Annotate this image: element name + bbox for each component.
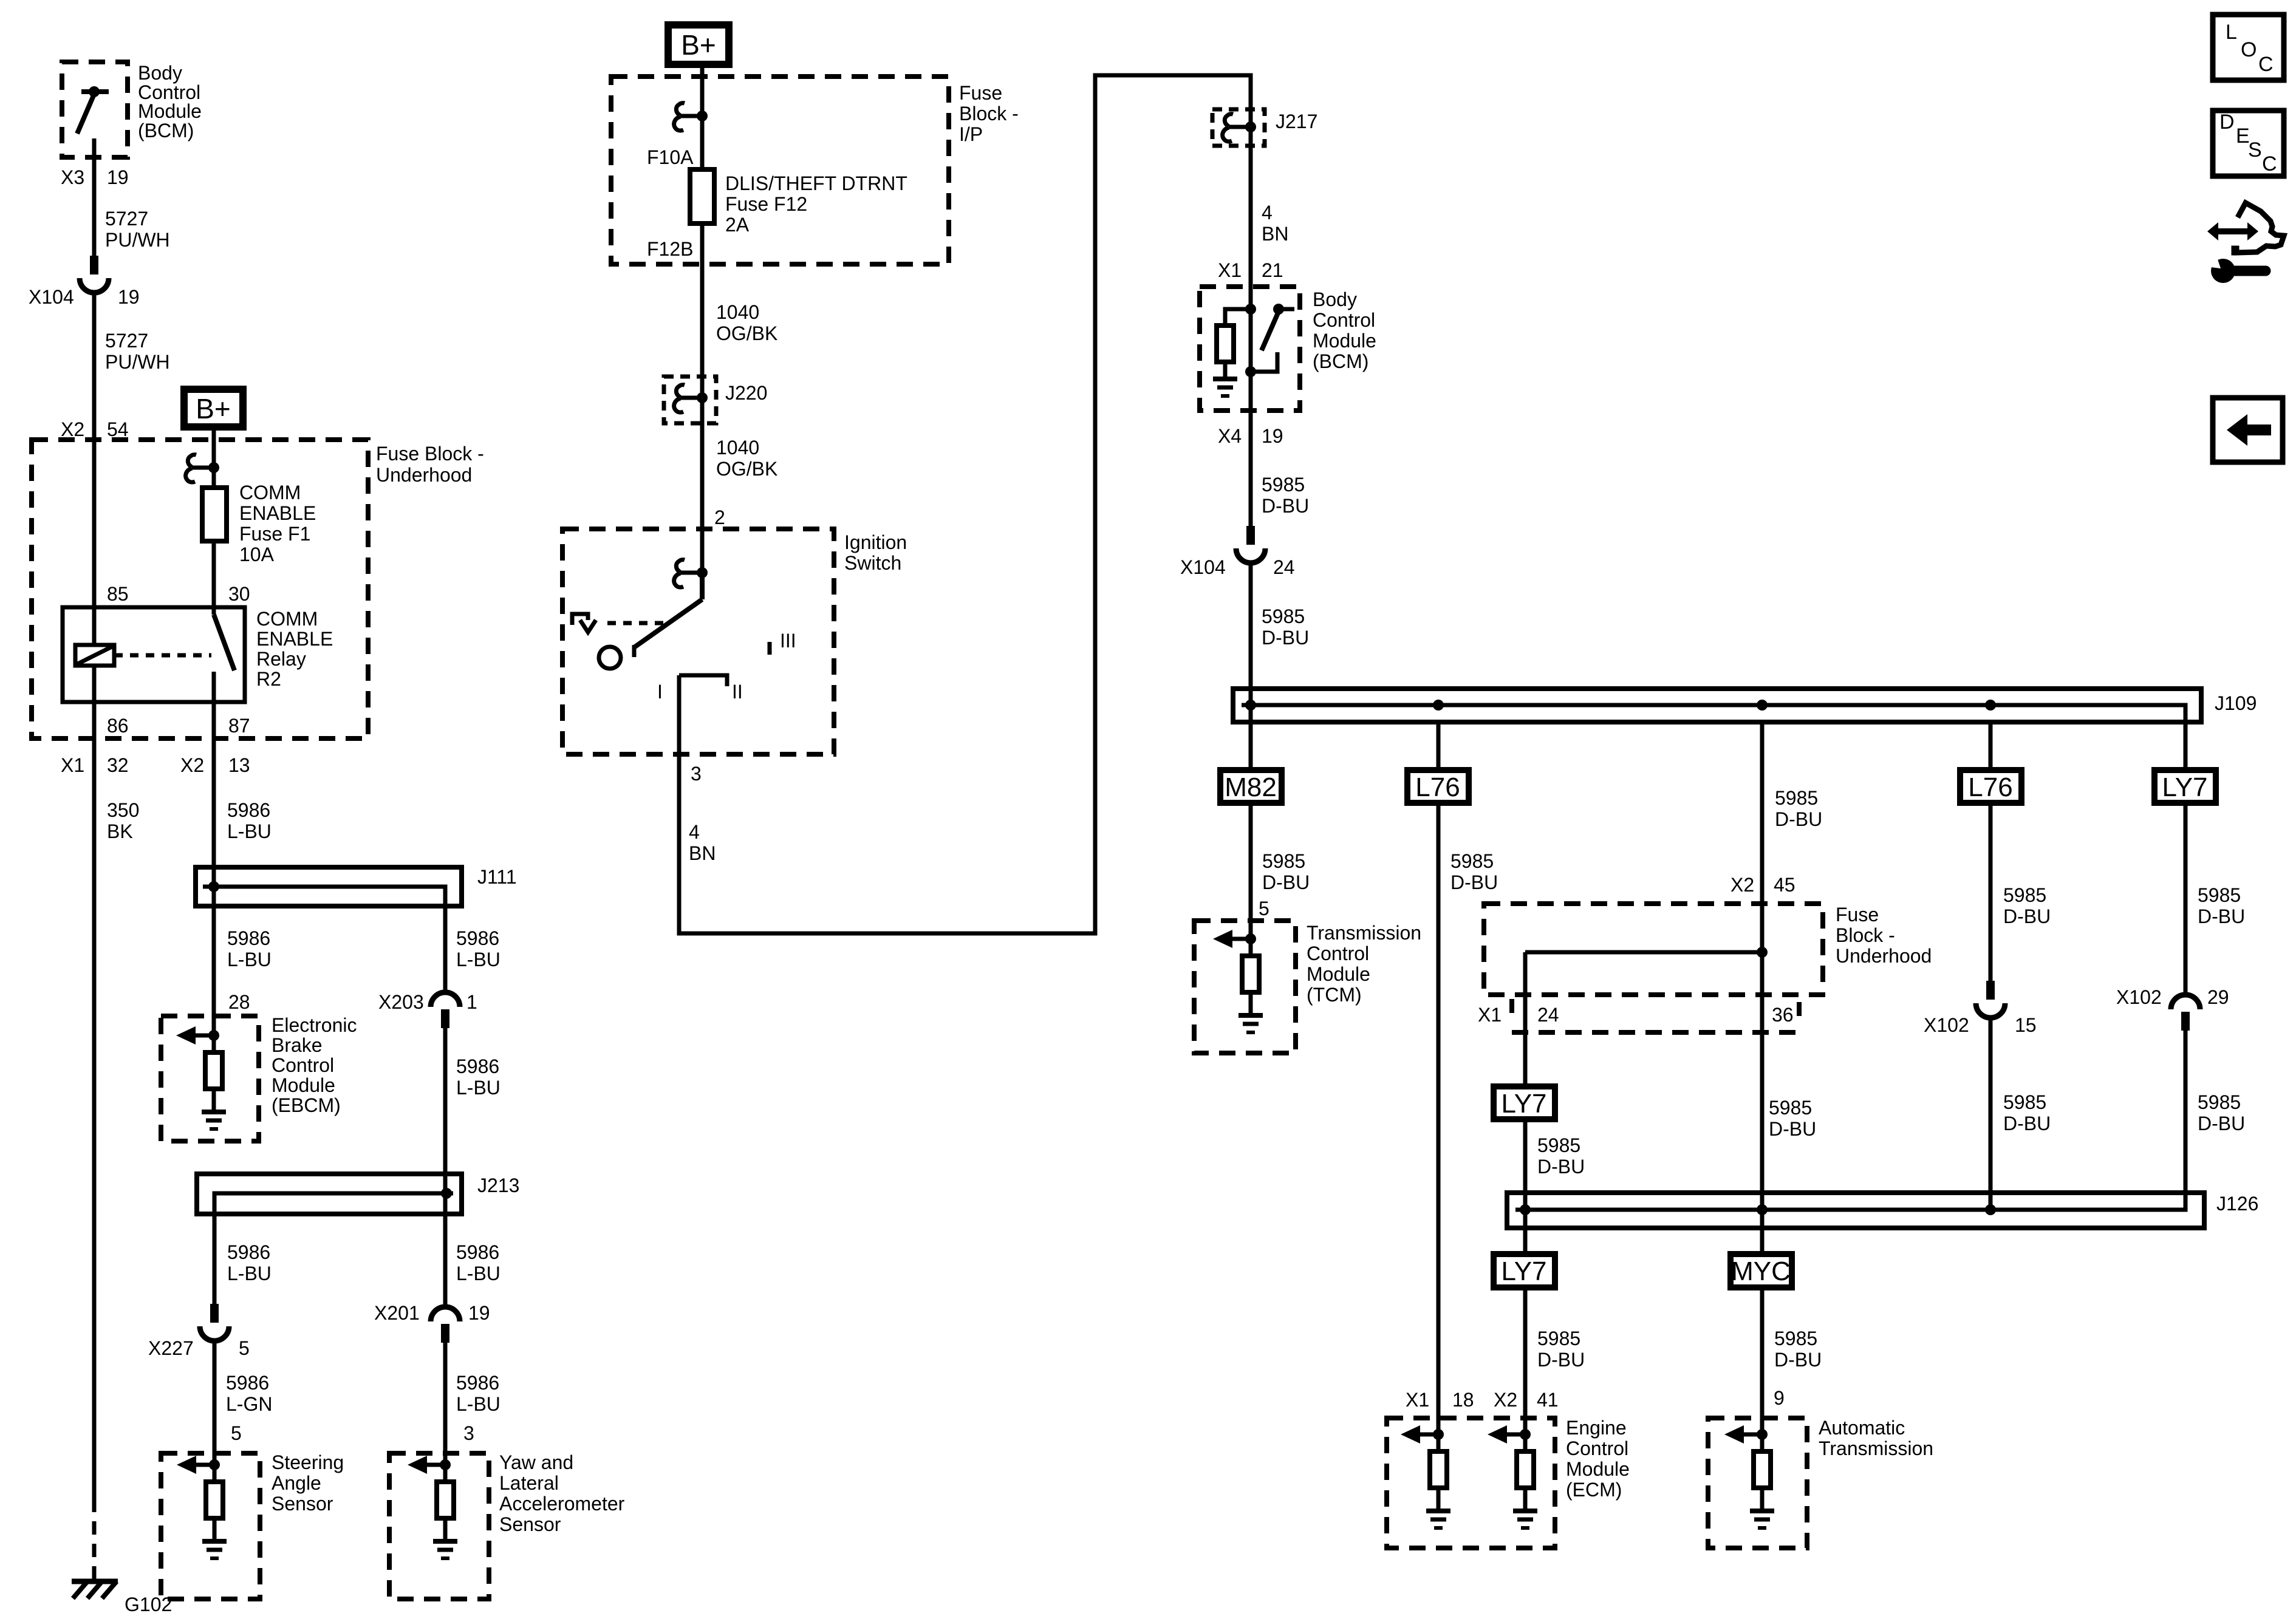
svg-text:5986: 5986	[456, 1372, 499, 1394]
svg-text:85: 85	[107, 583, 129, 605]
switch inside BCM	[77, 86, 109, 157]
wire 5985 D-BU J109 to TCM via M82	[1249, 722, 1253, 939]
wire label 5985 D-BU (above J109)	[1262, 605, 1309, 649]
wire 4 BN ignition to J217 routing	[679, 75, 1251, 933]
relay coil	[75, 607, 114, 702]
svg-text:II: II	[732, 681, 743, 703]
svg-text:Block -: Block -	[1836, 924, 1895, 946]
svg-text:3: 3	[463, 1422, 474, 1444]
svg-text:2: 2	[714, 506, 725, 528]
svg-text:5986: 5986	[456, 1241, 499, 1263]
svg-text:4: 4	[689, 821, 700, 843]
svg-text:F12B: F12B	[647, 238, 693, 260]
svg-text:J213: J213	[477, 1174, 519, 1196]
svg-text:87: 87	[228, 715, 250, 737]
svg-text:D-BU: D-BU	[1450, 871, 1498, 893]
svg-text:D-BU: D-BU	[2198, 905, 2245, 927]
splice pack J111	[196, 867, 462, 906]
wire 5985 D-BU fuse block pin 36 to J126	[1760, 952, 1765, 1210]
steering sensor internal: arrow, resistor, ground	[177, 1456, 227, 1558]
svg-text:D-BU: D-BU	[1775, 808, 1822, 830]
svg-text:Underhood: Underhood	[1836, 945, 1932, 967]
svg-text:Fuse: Fuse	[1836, 904, 1879, 926]
svg-text:(EBCM): (EBCM)	[272, 1094, 341, 1116]
wire 5985 D-BU X104 to J109	[1249, 563, 1253, 689]
svg-text:X1: X1	[1406, 1389, 1429, 1411]
svg-text:1: 1	[466, 991, 477, 1013]
EBCM internal: arrow, resistor, ground	[176, 1026, 226, 1129]
module box BCM (right)	[1200, 287, 1300, 411]
svg-text:D-BU: D-BU	[1537, 1156, 1585, 1178]
component box M82	[1220, 770, 1282, 803]
contact position III	[768, 642, 772, 655]
wire through J126 at 2901	[1760, 1193, 1765, 1228]
wire 1040 OG/BK fuse F12 to J220	[700, 223, 705, 398]
connector box J217	[1212, 109, 1265, 146]
junction dot J126 at L76-2 column	[1985, 1204, 1996, 1215]
wire 5986 L-GN X227 to steering sensor	[213, 1341, 217, 1465]
svg-text:5: 5	[1259, 898, 1269, 919]
svg-text:B+: B+	[681, 29, 716, 61]
splice pack J109	[1233, 689, 2201, 722]
svg-text:5985: 5985	[1537, 1328, 1580, 1349]
svg-text:X2: X2	[1494, 1389, 1517, 1411]
wire 4 BN J217 to BCM X1-21	[1249, 127, 1253, 309]
wire through J213 at 733	[443, 1174, 448, 1214]
svg-text:Transmission: Transmission	[1819, 1437, 1933, 1459]
svg-text:X104: X104	[29, 286, 74, 308]
svg-text:Lateral: Lateral	[499, 1472, 559, 1494]
svg-text:COMM: COMM	[239, 482, 301, 503]
component box LY7 (right)	[2154, 770, 2216, 803]
wire B+ into fuse block I/P	[700, 68, 705, 169]
wire 5986 L-BU X201 to yaw sensor	[443, 1343, 448, 1465]
fuse F1 COMM ENABLE	[202, 488, 227, 541]
component box L76 (first)	[1407, 770, 1469, 803]
module box Yaw and Lateral Accelerometer Sensor	[389, 1453, 489, 1599]
svg-text:F10A: F10A	[647, 146, 694, 168]
svg-text:Underhood: Underhood	[376, 464, 472, 486]
svg-text:X1: X1	[1218, 259, 1242, 281]
svg-text:5986: 5986	[456, 927, 499, 949]
fuse block underhood box (right)	[1484, 904, 1823, 995]
svg-text:5986: 5986	[227, 927, 270, 949]
svg-text:10A: 10A	[239, 544, 275, 565]
svg-text:BK: BK	[107, 820, 133, 842]
wire 5985 D-BU J126 to ECM X2-41 via LY7	[1523, 1228, 1528, 1434]
wire 5985 D-BU X102-15 to J126	[1989, 1018, 1993, 1210]
svg-text:Sensor: Sensor	[499, 1513, 561, 1535]
wire label 5985 D-BU (below BCM)	[1262, 474, 1309, 517]
svg-text:Body: Body	[1313, 288, 1357, 310]
wire label 5986 L-BU (right below J213)	[456, 1241, 501, 1284]
svg-text:24: 24	[1537, 1004, 1559, 1026]
wire label 4 BN (to BCM)	[1262, 202, 1288, 245]
svg-text:19: 19	[468, 1302, 490, 1324]
wire 5986 L-BU J111 to EBCM pin 28	[212, 906, 216, 1035]
svg-text:5986: 5986	[227, 1241, 270, 1263]
connector strip X1 of fuse block	[1512, 999, 1805, 1032]
wire through J126 at 2511	[1523, 1193, 1528, 1228]
svg-text:J111: J111	[477, 866, 517, 888]
wire into J126 at 3277	[1989, 1193, 1993, 1210]
svg-text:Control: Control	[272, 1054, 334, 1076]
svg-text:COMM: COMM	[256, 608, 318, 630]
wire B+ to fuse F1	[212, 431, 216, 488]
svg-text:5986: 5986	[227, 799, 270, 821]
svg-text:BN: BN	[1262, 223, 1288, 245]
wire label 5985 D-BU (MYC column)	[1774, 1328, 1822, 1371]
svg-text:D-BU: D-BU	[2198, 1113, 2245, 1134]
svg-text:13: 13	[228, 754, 250, 776]
svg-text:LY7: LY7	[1501, 1089, 1546, 1119]
wire 5985 D-BU J109 to ECM X1-18 via L76	[1437, 722, 1441, 1434]
svg-text:L-BU: L-BU	[227, 1263, 272, 1284]
svg-text:(TCM): (TCM)	[1307, 984, 1362, 1006]
junction dot on J111	[208, 881, 219, 892]
svg-text:Yaw and: Yaw and	[499, 1451, 573, 1473]
ignition switch blade and contacts	[599, 573, 702, 669]
svg-text:X102: X102	[1924, 1014, 1969, 1036]
svg-text:C: C	[2258, 53, 2274, 76]
svg-text:PU/WH: PU/WH	[105, 229, 170, 251]
wire label 5986 L-BU (left, below J111)	[227, 927, 272, 970]
automatic transmission internal: arrow, resistor, ground	[1724, 1425, 1774, 1528]
svg-text:X2: X2	[180, 754, 204, 776]
wire 5986 L-BU J213 to X201	[443, 1214, 448, 1307]
junction dot J126 at MYC column	[1757, 1204, 1768, 1215]
svg-text:Fuse Block -: Fuse Block -	[376, 443, 484, 465]
module box TCM	[1194, 921, 1296, 1053]
terminal hook F10A	[674, 103, 708, 131]
svg-text:5: 5	[231, 1422, 242, 1444]
svg-text:Module: Module	[1566, 1458, 1630, 1480]
component box LY7 (below J126)	[1494, 1254, 1555, 1287]
svg-text:BN: BN	[689, 842, 716, 864]
junction dot J109 at L76-2 column	[1985, 700, 1996, 711]
svg-text:ENABLE: ENABLE	[239, 502, 316, 524]
svg-text:5985: 5985	[2003, 884, 2046, 906]
svg-text:X203: X203	[378, 991, 424, 1013]
svg-text:5985: 5985	[2198, 1091, 2241, 1113]
svg-text:Sensor: Sensor	[272, 1493, 333, 1515]
wire inside fuse block to pin 24	[1525, 950, 1762, 955]
svg-text:Fuse F12: Fuse F12	[725, 193, 807, 215]
svg-text:21: 21	[1262, 259, 1283, 281]
svg-text:45: 45	[1774, 874, 1795, 896]
svg-text:C: C	[2262, 152, 2277, 176]
svg-text:III: III	[780, 630, 796, 652]
wire 5727 PU/WH down to relay pin 85	[92, 293, 97, 607]
terminal hook J217	[1223, 114, 1256, 141]
svg-text:L-BU: L-BU	[456, 1077, 501, 1099]
svg-text:5985: 5985	[1774, 1328, 1817, 1349]
svg-text:L-BU: L-BU	[456, 949, 501, 970]
svg-text:(ECM): (ECM)	[1566, 1479, 1622, 1501]
relay R2 COMM ENABLE	[63, 607, 245, 702]
connector X102 pin 29	[2171, 995, 2200, 1031]
wire 350 BK dashed segment	[92, 1499, 97, 1579]
power symbol B+ (left)	[184, 389, 243, 427]
component box MYC	[1731, 1254, 1792, 1287]
connector X104 pin 24	[1236, 526, 1265, 563]
wire 350 BK relay 86 to G102	[92, 702, 97, 1499]
svg-text:X4: X4	[1218, 425, 1242, 447]
ignition key symbol	[572, 614, 596, 632]
wire label 5727 PU/WH lower	[105, 330, 170, 373]
wire inside BCM down	[1249, 309, 1253, 411]
svg-text:Brake: Brake	[272, 1034, 323, 1056]
junction dot J109 at M82 column	[1245, 700, 1256, 711]
wire label 350 BK	[107, 799, 139, 842]
icon vehicle with double arrow and wrench	[2201, 203, 2284, 283]
svg-text:D-BU: D-BU	[1262, 495, 1309, 517]
wire label 5985 D-BU (LY7 right column)	[2198, 884, 2245, 927]
svg-text:I/P: I/P	[959, 123, 983, 145]
svg-text:X1: X1	[61, 754, 84, 776]
wire 1040 OG/BK J220 to ignition switch	[700, 398, 705, 573]
svg-text:5986: 5986	[226, 1372, 269, 1394]
splice pack J126	[1507, 1193, 2204, 1228]
svg-text:L: L	[2226, 21, 2237, 44]
svg-text:Engine: Engine	[1566, 1417, 1627, 1439]
svg-text:5986: 5986	[456, 1055, 499, 1077]
relay switch blade	[214, 607, 234, 702]
svg-text:32: 32	[107, 754, 129, 776]
svg-text:J109: J109	[2215, 692, 2257, 714]
junction dot J109 at L76 column	[1433, 700, 1444, 711]
svg-text:Fuse F1: Fuse F1	[239, 523, 310, 545]
wire label 5985 D-BU (L76 column)	[1450, 850, 1498, 893]
TCM internal: arrow, resistor, ground	[1213, 930, 1263, 1032]
svg-text:X201: X201	[374, 1302, 420, 1324]
relay linkage dashed	[114, 653, 211, 658]
svg-text:29: 29	[2207, 986, 2229, 1008]
junction dot inside fuse block	[1757, 947, 1768, 958]
svg-text:X102: X102	[2116, 986, 2162, 1008]
fuse F12 DLIS/THEFT DTRNT	[690, 169, 714, 223]
terminal hook at fuse block feed (left)	[186, 455, 219, 482]
wire BCM X3-19 to X104	[92, 157, 97, 256]
connector X102 pin 15	[1976, 981, 2005, 1018]
svg-text:Electronic: Electronic	[272, 1014, 357, 1036]
svg-text:19: 19	[118, 286, 140, 308]
connector X227 pin 5	[200, 1304, 229, 1341]
wire 5985 D-BU J109 to X102-29 via LY7	[2184, 722, 2188, 995]
svg-text:D-BU: D-BU	[2003, 1113, 2051, 1134]
svg-text:30: 30	[228, 583, 250, 605]
svg-text:Ignition: Ignition	[844, 531, 907, 553]
svg-text:Angle: Angle	[272, 1472, 321, 1494]
connector box J220	[664, 377, 716, 423]
svg-text:ENABLE: ENABLE	[256, 628, 333, 650]
svg-text:DLIS/THEFT DTRNT: DLIS/THEFT DTRNT	[725, 172, 907, 194]
module box Automatic Transmission	[1708, 1418, 1807, 1548]
svg-text:L-BU: L-BU	[456, 1263, 501, 1284]
svg-text:Automatic: Automatic	[1819, 1417, 1905, 1439]
wire 5986 L-BU J111 to X203	[443, 906, 448, 992]
svg-text:MYC: MYC	[1731, 1256, 1791, 1286]
svg-text:OG/BK: OG/BK	[716, 458, 777, 480]
component box LY7 (middle)	[1494, 1086, 1555, 1119]
svg-text:D-BU: D-BU	[1537, 1349, 1585, 1371]
wire label 4 BN (ignition output)	[689, 821, 716, 864]
ECM internal branch X1-18: arrow, resistor, ground	[1401, 1425, 1450, 1528]
wire 5986 L-BU relay 87 to J111	[212, 702, 216, 867]
svg-text:Module: Module	[1313, 330, 1376, 352]
svg-text:R2: R2	[256, 668, 281, 690]
svg-text:Module: Module	[1307, 963, 1370, 985]
svg-text:O: O	[2241, 38, 2257, 61]
svg-text:L-BU: L-BU	[227, 820, 272, 842]
ignition linkage dashed	[607, 621, 668, 626]
svg-text:86: 86	[107, 715, 129, 737]
wire through J109 at 2059	[1249, 689, 1253, 722]
svg-text:X2: X2	[61, 418, 84, 440]
svg-text:18: 18	[1452, 1389, 1474, 1411]
wire 5985 D-BU LY7 to J126	[1523, 1119, 1528, 1210]
wire 5985 D-BU J126 to automatic transmission via MYC	[1760, 1228, 1765, 1434]
icon box back arrow	[2213, 398, 2283, 462]
wire 5986 L-BU J213 to X227	[213, 1214, 217, 1304]
svg-text:1040: 1040	[716, 301, 759, 323]
terminal hook J220	[674, 385, 708, 412]
wire 5985 D-BU J109 to X102-15 via L76	[1989, 722, 1993, 981]
svg-text:28: 28	[228, 991, 250, 1013]
wire through J111 at 352	[212, 867, 216, 906]
wire label 5986 L-BU (left below J213)	[227, 1241, 272, 1284]
svg-text:M82: M82	[1225, 772, 1277, 802]
svg-text:Fuse: Fuse	[959, 82, 1002, 104]
module box BCM (top-left Body Control Module)	[62, 62, 128, 157]
svg-text:LY7: LY7	[2162, 772, 2207, 802]
svg-text:5985: 5985	[2003, 1091, 2046, 1113]
svg-text:Steering: Steering	[272, 1451, 344, 1473]
svg-text:5985: 5985	[1450, 850, 1494, 872]
svg-text:24: 24	[1273, 556, 1295, 578]
svg-text:I: I	[657, 681, 663, 703]
svg-text:5985: 5985	[1775, 787, 1818, 809]
wire label 5986 L-BU (above yaw sensor)	[456, 1372, 501, 1415]
wire label 5985 D-BU (LY7 below J126)	[1537, 1328, 1585, 1371]
svg-text:J220: J220	[725, 382, 767, 404]
svg-text:LY7: LY7	[1501, 1256, 1546, 1286]
svg-text:Body: Body	[138, 62, 182, 84]
svg-text:J217: J217	[1276, 111, 1317, 132]
wire label 5985 D-BU (L76-2 column)	[2003, 884, 2051, 927]
svg-text:3: 3	[691, 763, 702, 785]
wire label 5985 D-BU (M82 column)	[1262, 850, 1310, 893]
connector X201 pin 19	[431, 1307, 460, 1343]
svg-text:X104: X104	[1180, 556, 1226, 578]
svg-text:41: 41	[1537, 1389, 1559, 1411]
wire label 5985 D-BU (X2-45 column)	[1775, 787, 1822, 830]
fuse block underhood box (left)	[32, 440, 368, 738]
svg-text:Module: Module	[138, 100, 202, 122]
svg-text:5727: 5727	[105, 208, 148, 230]
wire label 5985 D-BU (below X102-29)	[2198, 1091, 2245, 1134]
svg-text:Transmission: Transmission	[1307, 922, 1421, 944]
wire label 5985 D-BU (pin24 column)	[1537, 1134, 1585, 1178]
svg-text:Block -: Block -	[959, 103, 1019, 124]
module box Steering Angle Sensor	[161, 1453, 260, 1599]
svg-text:PU/WH: PU/WH	[105, 351, 170, 373]
svg-text:Accelerometer: Accelerometer	[499, 1493, 625, 1515]
svg-text:J126: J126	[2216, 1193, 2258, 1215]
svg-text:350: 350	[107, 799, 139, 821]
svg-text:5985: 5985	[1262, 474, 1305, 496]
component box L76 (second)	[1960, 770, 2021, 803]
svg-text:5985: 5985	[1262, 605, 1305, 627]
wire label 5986 L-GN	[226, 1372, 272, 1415]
terminal hook ignition feed	[674, 560, 708, 587]
BCM internal resistor branch	[1213, 304, 1256, 396]
svg-text:5727: 5727	[105, 330, 148, 352]
svg-text:X227: X227	[148, 1337, 194, 1359]
svg-text:Relay: Relay	[256, 648, 306, 670]
svg-text:G102: G102	[125, 1594, 172, 1615]
svg-text:9: 9	[1774, 1387, 1785, 1409]
svg-text:19: 19	[1262, 425, 1283, 447]
wire label 5727 PU/WH upper	[105, 208, 170, 251]
svg-text:D-BU: D-BU	[1769, 1118, 1816, 1140]
power symbol B+ (middle)	[668, 25, 729, 64]
ground G102 (chassis)	[72, 1581, 118, 1598]
svg-text:Control: Control	[1566, 1437, 1628, 1459]
svg-text:Module: Module	[272, 1074, 335, 1096]
svg-text:S: S	[2248, 138, 2262, 162]
wire label 5986 L-BU (right, below J111)	[456, 927, 501, 970]
svg-text:B+: B+	[196, 393, 231, 424]
svg-text:L-BU: L-BU	[456, 1393, 501, 1415]
ECM internal branch X2-41: arrow, resistor, ground	[1488, 1425, 1537, 1528]
wire 5986 L-BU X203 to J213	[443, 1028, 448, 1174]
svg-text:Control: Control	[1313, 309, 1375, 331]
svg-text:2A: 2A	[725, 214, 750, 236]
svg-text:D: D	[2219, 111, 2235, 134]
svg-text:X1: X1	[1478, 1004, 1502, 1026]
splice pack J213	[197, 1174, 462, 1214]
svg-text:54: 54	[107, 418, 129, 440]
wire 5985 D-BU J109 to fuse block X2-45	[1760, 722, 1765, 952]
svg-text:L76: L76	[1968, 772, 2012, 802]
svg-text:5: 5	[239, 1337, 250, 1359]
svg-text:19: 19	[107, 166, 129, 188]
svg-text:15: 15	[2015, 1014, 2037, 1036]
svg-text:(BCM): (BCM)	[138, 120, 194, 141]
svg-text:5985: 5985	[1262, 850, 1305, 872]
svg-text:L-GN: L-GN	[226, 1393, 272, 1415]
wire label 5985 D-BU (below X102-15)	[2003, 1091, 2051, 1134]
svg-text:1040: 1040	[716, 437, 759, 459]
svg-text:X2: X2	[1731, 874, 1754, 896]
wire label 1040 OG/BK upper	[716, 301, 777, 344]
svg-text:(BCM): (BCM)	[1313, 350, 1368, 372]
wire label 5985 D-BU (pin36 column)	[1769, 1097, 1816, 1140]
wire label 5986 L-BU (above J111)	[227, 799, 272, 842]
fuse block I/P box	[611, 77, 949, 264]
wire 5985 D-BU X102-29 to J126	[2184, 1031, 2188, 1210]
svg-text:5985: 5985	[1537, 1134, 1580, 1156]
svg-text:D-BU: D-BU	[1262, 871, 1310, 893]
wire label 5986 L-BU (below X203)	[456, 1055, 501, 1099]
wire 5985 D-BU fuse block pin 24 to LY7	[1523, 952, 1528, 1086]
contact position II	[679, 675, 727, 686]
wire fuse F1 to relay pin 30	[212, 541, 216, 607]
connector X104 pin 19	[80, 256, 109, 293]
svg-text:5985: 5985	[1769, 1097, 1812, 1119]
yaw sensor internal: arrow, resistor, ground	[408, 1456, 457, 1558]
